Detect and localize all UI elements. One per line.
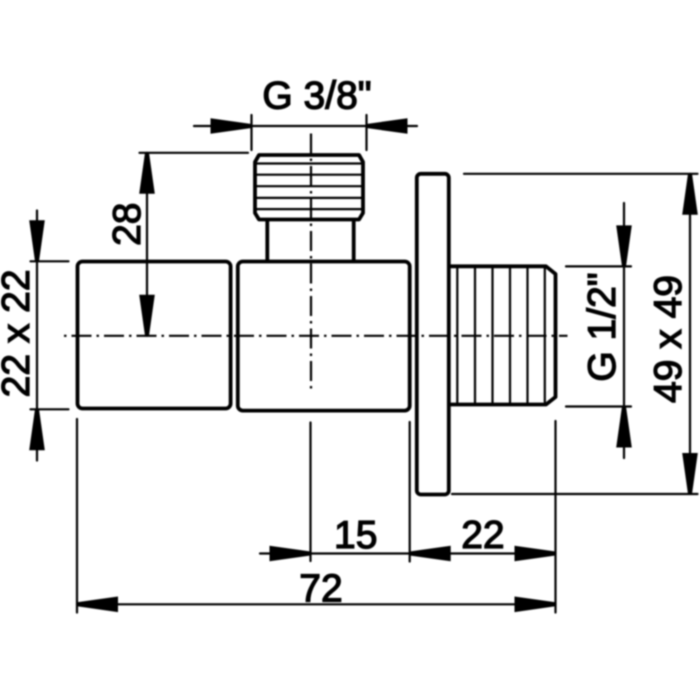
dim 49x49: extension lines [452, 174, 698, 494]
dim 15/22: dimension line [260, 552, 556, 554]
svg-text:22 x 22: 22 x 22 [0, 269, 38, 397]
dim 49x49: dimension line [689, 174, 691, 494]
arrow 28 up [139, 153, 155, 194]
arrow 28 down [139, 295, 155, 336]
arrow 15/22 middle [410, 546, 451, 562]
wall flange rosette [417, 174, 449, 495]
right outlet G1/2 outline [450, 266, 556, 404]
horizontal center line [64, 335, 568, 337]
svg-text:22: 22 [461, 514, 504, 557]
dim G1/2: dimension line stubs [623, 203, 625, 458]
arrow 72 left [77, 597, 118, 613]
arrow 49x49 top [682, 174, 698, 215]
dim 22x22: extension lines [31, 261, 69, 409]
dim G1/2: extension lines [566, 266, 631, 406]
svg-text:15: 15 [334, 514, 377, 557]
arrow 49x49 bottom [682, 453, 698, 494]
dim G3/8: dimension line [194, 125, 417, 127]
svg-text:G 3/8": G 3/8" [262, 75, 371, 118]
dim 15/22: extension lines [311, 421, 556, 613]
arrow G1/2 bottom [616, 407, 632, 448]
vertical center line [310, 134, 312, 393]
svg-text:49 x 49: 49 x 49 [647, 275, 690, 403]
arrow 22x22 top [29, 220, 45, 261]
dim 72: dimension line [77, 603, 556, 605]
valve body [238, 262, 410, 411]
top nipple thread lines [257, 164, 362, 210]
arrow G3/8 left [211, 118, 252, 134]
arrow G3/8 right [367, 118, 408, 134]
svg-text:72: 72 [299, 568, 342, 611]
arrow 22x22 bottom [29, 409, 45, 450]
dim 22x22: dimension line [36, 211, 38, 461]
arrow G1/2 top [616, 225, 632, 266]
top threaded nipple G3/8 outline [255, 155, 363, 220]
arrow 22 right [515, 546, 556, 562]
dim G3/8: extension lines [252, 115, 367, 150]
handle square 22x22 [78, 262, 231, 409]
dim 72: left extension line [76, 419, 78, 613]
neck below top thread [267, 221, 353, 260]
dim 28: dimension line [146, 153, 148, 336]
svg-text:G 1/2": G 1/2" [581, 272, 624, 381]
arrow 72 right [515, 597, 556, 613]
dim 28: top extension line [140, 152, 249, 154]
arrow 15 left [270, 546, 311, 562]
right outlet thread lines [457, 268, 545, 403]
svg-text:28: 28 [106, 203, 149, 246]
